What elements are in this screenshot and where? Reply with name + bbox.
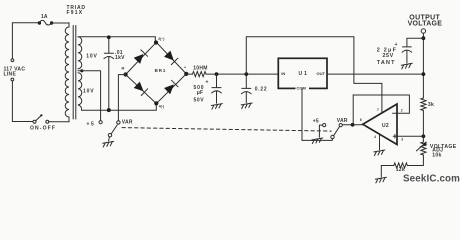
transformer T1 core [73,26,76,120]
wire switch to primary bottom [49,121,69,123]
wire 12k to ground [381,166,394,177]
svg-text:+: + [184,66,186,70]
svg-text:50V: 50V [194,98,205,104]
svg-text:7: 7 [377,108,379,112]
svg-text:TANT: TANT [377,60,396,66]
regulator U1 box [278,58,327,88]
node 0.22 junction [244,72,248,76]
resistor R4 12k [394,163,408,168]
wire U2 pin2 feedback loop [353,95,409,125]
ground G6 [401,63,412,69]
diode BR1 lower-right [164,80,178,94]
svg-text:+: + [206,80,209,86]
node bridge bottom [154,101,158,105]
op-amp U2 [363,104,397,145]
switch S2b common [331,135,334,138]
svg-text:+ 5: + 5 [87,121,95,127]
wire secondary bottom rail [82,104,157,110]
wire U2 pin3 [397,135,423,137]
bridge BR1 frame [126,42,187,103]
node bridge left [124,72,128,76]
wire R1 to U1 input [206,73,278,75]
svg-text:+5: +5 [313,118,319,124]
svg-text:VOLTAGE: VOLTAGE [408,20,443,27]
svg-text:10V: 10V [86,53,97,59]
svg-text:10V: 10V [83,89,94,95]
wire +5 right to ground [319,125,322,137]
capacitor C4 2.2uF 25V TANT [402,38,423,63]
node output rail junction [422,72,426,76]
svg-text:0.22: 0.22 [255,87,268,93]
node pin3 3k pot junction [422,134,426,138]
svg-text:F91X: F91X [67,10,84,16]
terminal 117 VAC LINE upper [11,59,14,62]
svg-text:LINE: LINE [4,71,17,77]
svg-text:4(-): 4(-) [159,104,164,108]
capacitor C2 500uF 50V [212,74,222,103]
svg-text:6: 6 [360,118,362,122]
wire bridge left corner to VAR terminal [118,75,125,121]
svg-text:4: 4 [374,135,376,139]
svg-text:3k: 3k [428,102,434,108]
node bridge top [154,40,158,44]
node C1 bottom junction [107,108,111,112]
wire fuse to transformer primary top [52,22,69,24]
svg-text:BR1: BR1 [155,68,167,73]
node feedback junction [351,123,355,127]
wire 3k to pin3 node [422,111,424,143]
wire raw DC top bypass to U2 pin7 [246,37,382,113]
terminal VAR left [117,121,120,124]
diode BR1 lower-left [134,82,148,96]
svg-text:12k: 12k [396,167,405,173]
ground G5 [374,150,385,156]
svg-text:2(~): 2(~) [158,37,164,41]
node output cap branch [422,36,426,40]
svg-text:μF: μF [197,90,204,96]
capacitor C1 .01 1kV [104,37,114,110]
fuse F1 1A [38,21,41,24]
terminal +5 right [323,124,326,127]
ground G7 [375,177,386,183]
diode BR1 upper-left [134,50,148,64]
terminal OUTPUT VOLTAGE [421,29,425,33]
svg-text:10HM: 10HM [193,66,208,72]
ground G4 [312,138,323,144]
svg-text:U 1: U 1 [299,71,308,77]
transformer T1 secondary winding upper 10V [78,37,82,69]
wire bridge right to resistor R1 [186,73,192,75]
wire U2 pin4 to ground [379,134,381,149]
node filter cap junction [215,72,219,76]
diode BR1 upper-right [164,51,178,65]
wire VAR to op-amp output [342,124,363,126]
ground G1 [103,141,114,147]
svg-text:1kV: 1kV [115,55,125,61]
svg-text:SeekIC.com: SeekIC.com [403,174,460,185]
svg-text:1A: 1A [41,14,48,20]
potentiometer R3 VOLTAGE ADJ 10k [421,142,426,155]
wire AC line left rail bottom segment [12,81,33,122]
node center tap [80,69,83,72]
resistor R1 10HM [193,72,207,77]
svg-text:OUT: OUT [317,71,326,76]
wire switch common to ground [108,137,111,141]
svg-text:M: M [122,67,125,71]
svg-text:25V: 25V [383,53,394,59]
wire U1 output rail [327,73,423,75]
resistor R2 3k [421,98,426,111]
svg-text:2: 2 [401,108,403,112]
capacitor C3 0.22 [241,74,251,103]
wire secondary top rail [78,37,155,41]
terminal +5 left [99,121,102,124]
svg-text:VAR: VAR [122,120,133,126]
transformer T1 secondary winding lower 10V [78,73,82,110]
svg-text:+: + [395,42,398,48]
svg-text:U2: U2 [382,123,389,129]
ground G3 [241,103,252,109]
svg-text:IN: IN [281,71,285,76]
switch S1 ON-OFF [33,120,36,123]
wire U1 COM to switch S2b [302,88,332,140]
terminal 117 VAC LINE lower [11,78,14,81]
svg-text:3: 3 [401,138,403,142]
svg-text:VAR: VAR [337,118,348,124]
wire pot bottom to 12k [407,155,423,166]
transformer T1 primary winding [65,23,69,122]
wire output terminal down rail [422,33,424,98]
wire AC line left rail top segment [12,23,39,59]
dashed gang line [122,128,331,132]
node bridge right [184,72,188,76]
terminal VAR right [339,124,342,127]
node C1 top junction [107,35,111,39]
svg-text:ON-OFF: ON-OFF [30,126,56,132]
ground G2 [211,104,222,110]
switch S2a arm [108,134,111,137]
wire center tap to +5 terminal [78,71,101,120]
svg-text:10k: 10k [432,153,441,159]
